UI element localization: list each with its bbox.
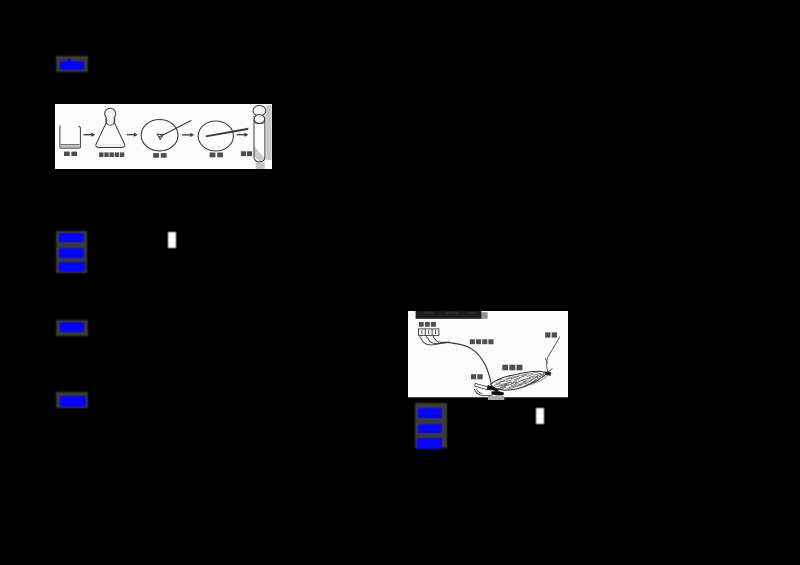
node D : highlighted answer link 3 <box>56 392 88 408</box>
diagram 1 : microbiology inoculation flow (white panel) <box>55 104 272 169</box>
flask (sample extract) with cotton plug <box>105 108 116 119</box>
test tube (slant) with cotton plug <box>253 106 266 116</box>
label: sample <box>64 152 77 156</box>
node R2 : small white rectangle placeholder <box>536 408 544 424</box>
sciatic nerve trunk <box>449 343 492 384</box>
muscle texture <box>496 373 544 388</box>
diagram 2 : frog sciatic nerve-gastrocnemius preparation (white panel) <box>408 311 568 400</box>
arrow 1 <box>83 134 91 136</box>
label: streak <box>210 153 223 158</box>
femur rod <box>475 383 489 390</box>
node A1 : blue text blob "answer" <box>60 61 84 70</box>
shade strip below panel <box>488 396 504 400</box>
plate 2 (streak) <box>198 121 233 151</box>
thread curve <box>546 337 559 372</box>
node E : 3-line highlighted answer block under diagram 2 <box>415 403 447 448</box>
gastrocnemius muscle outline <box>491 371 548 390</box>
arrow 4 <box>237 134 245 136</box>
label: inoculate <box>241 151 252 156</box>
arrow 2 <box>127 134 134 136</box>
nerve rootlets <box>421 339 448 345</box>
label: sciatic nerve (4 chars) <box>470 339 494 344</box>
beaker (sample) <box>60 126 81 149</box>
shade block under test tube <box>256 163 265 169</box>
tendon dark tip <box>545 371 551 375</box>
plate 1 (spread) <box>141 120 178 151</box>
label: vertebra (3 chars) <box>419 322 436 327</box>
node A : highlighted answer link 1 (grey highlight box) <box>56 56 88 72</box>
vertebra block with three segments <box>419 329 439 336</box>
dark redacted title bar <box>416 311 482 319</box>
node B : 3-line highlighted answer block <box>56 231 87 273</box>
label: sample extract (5 chars) <box>99 152 124 157</box>
grey square at end of bar <box>481 312 487 319</box>
node C : highlighted answer link 2 <box>56 320 88 336</box>
label: cotton thread (2 chars) <box>545 332 557 337</box>
node R1 : small white rectangle placeholder <box>168 232 176 248</box>
label: femur (2 chars) <box>471 374 483 379</box>
label: gastrocnemius (3 chars) <box>502 365 522 371</box>
arrow 3 <box>182 134 190 136</box>
lower leg hook outline <box>474 389 492 395</box>
label: spread <box>153 153 166 158</box>
shade strip right of test tube <box>266 106 271 161</box>
knee dark mass <box>487 385 499 391</box>
